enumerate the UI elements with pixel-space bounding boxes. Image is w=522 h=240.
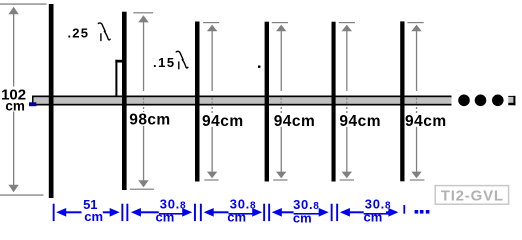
spacing dim 30.8cm arrows (1)	[131, 208, 192, 217]
dimension 94cm (dir1) tick bottom	[204, 179, 218, 180]
element 2 driven	[122, 12, 127, 190]
spacing label 30.8 cm (3)	[293, 197, 320, 225]
label 102 cm	[0, 86, 30, 113]
dimension 94cm (dir3) arrow	[342, 25, 352, 179]
label .25 lambda	[68, 23, 111, 41]
spacing dim: double tick at element5	[331, 204, 338, 221]
label 94cm (dir4)	[404, 113, 447, 130]
dimension 94cm (dir4) tick bottom	[410, 179, 425, 180]
boom	[32, 96, 452, 106]
dimension 94cm (dir1) arrow	[207, 25, 217, 179]
svg-text:.25: .25	[68, 25, 90, 40]
svg-text:94cm: 94cm	[202, 113, 244, 130]
spacing dim 30.8cm arrows (3)	[272, 208, 329, 217]
svg-text:94cm: 94cm	[274, 113, 316, 130]
spacing dim: double tick at element2	[121, 204, 128, 221]
dimension 94cm (dir3) tick bottom	[340, 179, 354, 180]
svg-text:94cm: 94cm	[405, 113, 447, 130]
continuation dot 1	[458, 95, 470, 107]
svg-text:cm: cm	[293, 211, 312, 226]
feed stub on driven element	[115, 60, 123, 96]
dimension 94cm (dir4) arrow	[411, 25, 421, 179]
spacing dim: short tick at element6	[403, 205, 405, 214]
spacing label 30.8 cm (4)	[364, 197, 392, 225]
feed point (blue square on boom)	[29, 102, 36, 106]
label 94cm (dir2)	[273, 113, 316, 130]
element 3 director	[195, 22, 200, 182]
element 4 director	[265, 22, 269, 182]
dimension 94cm (dir1) tick top	[203, 22, 219, 23]
spacing label 30.8 cm (1)	[156, 197, 187, 225]
svg-text:TI2-GVL: TI2-GVL	[441, 187, 504, 204]
dimension 94cm (dir4) tick top	[408, 22, 424, 23]
svg-text:cm: cm	[5, 98, 25, 113]
spacing dim: double tick at element4	[263, 204, 270, 221]
spacing label 30.8 cm (2)	[227, 197, 256, 225]
svg-text:cm: cm	[227, 210, 246, 225]
stray mark	[258, 66, 260, 68]
dimension 98cm arrow	[138, 15, 148, 187]
label 94cm (dir1)	[201, 113, 244, 130]
spacing dim 30.8cm arrows (4)	[340, 208, 399, 217]
element 6 director	[400, 21, 404, 181]
spacing dim 30.8cm arrows (2)	[204, 208, 263, 217]
svg-text:98cm: 98cm	[129, 112, 170, 129]
dimension 102cm extension line bottom	[0, 194, 44, 195]
watermark box TI2-GVL	[435, 186, 508, 205]
dimension 102cm arrow	[8, 7, 18, 192]
continuation dot 3	[492, 95, 504, 107]
spacing dim 51cm arrows	[56, 208, 119, 217]
dimension 94cm (dir3) tick top	[339, 22, 355, 23]
dimension 94cm (dir2) tick bottom	[273, 179, 287, 180]
label .15 lambda	[153, 51, 188, 70]
label 94cm (dir3)	[338, 113, 381, 130]
svg-text:cm: cm	[364, 210, 383, 225]
svg-text:cm: cm	[156, 210, 175, 225]
dimension 94cm (dir2) tick top	[272, 22, 288, 23]
label 98cm	[129, 112, 171, 129]
spacing dim: double tick at element3	[194, 204, 202, 221]
continuation dot 2	[475, 95, 487, 107]
spacing dim: tick at element1	[53, 204, 55, 221]
svg-text:cm: cm	[84, 209, 103, 224]
dim shaft dashes across boom	[143, 98, 417, 104]
spacing label 51 cm	[83, 197, 103, 224]
dimension 98cm tick top	[133, 12, 153, 13]
svg-text:.15: .15	[153, 55, 176, 70]
dimension 94cm (dir2) arrow	[276, 25, 286, 179]
boom end cap	[508, 96, 515, 105]
element 1 reflector	[49, 4, 54, 198]
dimension 98cm tick bottom	[130, 189, 154, 190]
spacing continuation dots	[415, 210, 430, 214]
dimension 102cm extension line top	[0, 3, 47, 4]
svg-text:94cm: 94cm	[339, 113, 381, 130]
element 5 director	[332, 22, 336, 182]
